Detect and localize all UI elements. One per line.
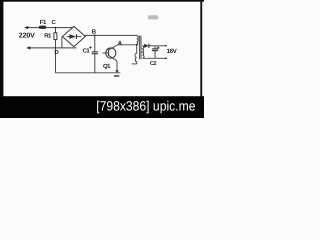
wire: node A collector line <box>117 44 136 46</box>
white background <box>0 0 204 118</box>
arrow: bottom AC input <box>26 46 30 49</box>
svg-text:[798x386] upic.me: [798x386] upic.me <box>96 99 195 114</box>
svg-text:C1: C1 <box>83 48 91 55</box>
wire: C1 branch upper <box>94 35 96 51</box>
svg-text:C: C <box>52 19 57 26</box>
fuse F1 body <box>39 26 46 29</box>
capacitor C1 plates <box>92 51 98 53</box>
plus sign C1 <box>89 46 92 49</box>
transformer primary winding <box>137 35 139 44</box>
svg-text:220V: 220V <box>19 33 35 40</box>
wire: secondary bottom output line <box>143 57 167 59</box>
bottom watermark bar <box>0 96 204 118</box>
svg-text:16V: 16V <box>167 48 178 55</box>
right border line <box>200 0 202 96</box>
transformer feedback winding <box>135 45 137 64</box>
wire: bottom AC line <box>30 47 77 49</box>
wire: emitter vertical <box>116 61 118 71</box>
bridge diode triangle <box>69 34 76 39</box>
svg-text:B: B <box>92 28 97 35</box>
secondary diode triangle <box>144 44 148 48</box>
svg-text:F1: F1 <box>40 19 47 26</box>
wire: C1 branch lower <box>94 54 96 73</box>
arrow: output plus terminal <box>165 45 167 47</box>
left border strip <box>0 0 3 96</box>
wire: top AC line <box>28 27 74 29</box>
Q1 base bar <box>108 49 110 55</box>
resistor R1 body <box>54 33 57 40</box>
gray logo blob top-right <box>148 15 159 19</box>
junction dot node C <box>55 27 57 29</box>
arrow: top AC input <box>24 26 28 29</box>
wire: node B line to transformer <box>85 34 137 36</box>
bridge diode leads <box>67 36 70 38</box>
junction dot node A <box>136 44 138 46</box>
wire: vertical branch C-R1-D to bottom rail <box>55 28 57 73</box>
wire: bridge left corner drop <box>61 37 63 48</box>
top border line <box>0 0 204 2</box>
wire: feedback bottom stub <box>132 63 137 65</box>
capacitor C2 plates <box>152 48 158 50</box>
plus sign C2 <box>157 47 160 50</box>
transistor Q1 circle <box>106 48 116 58</box>
junction dot node B / C1 tap <box>94 35 96 37</box>
Q1 collector lead <box>109 45 118 50</box>
junction dot node D <box>55 47 57 49</box>
wire: bottom rail <box>56 72 121 74</box>
Q1 emitter arrowhead <box>115 70 118 73</box>
bridge rectifier diamond <box>62 26 85 46</box>
Q1 emitter lead <box>109 55 118 61</box>
wire: C2 branch upper <box>154 46 156 49</box>
svg-text:D: D <box>54 49 59 56</box>
transformer secondary winding <box>143 46 145 59</box>
emitter terminal dash <box>114 75 119 76</box>
Q1 base lead <box>103 52 109 54</box>
svg-text:C2: C2 <box>150 61 157 67</box>
bridge diode bar <box>76 34 77 39</box>
wire: secondary top output line <box>143 45 167 47</box>
secondary diode bar <box>148 44 149 48</box>
svg-text:A: A <box>118 40 123 47</box>
transformer core <box>139 36 141 60</box>
wire: C2 branch lower <box>154 51 156 58</box>
svg-text:R1: R1 <box>44 32 52 39</box>
arrow: output minus terminal <box>165 57 167 59</box>
